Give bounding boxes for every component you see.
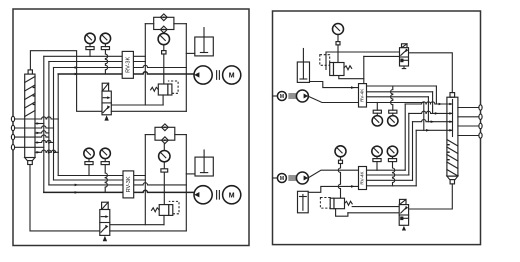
bus line R-b2 (367, 91, 433, 93)
RV4 block (359, 167, 367, 190)
wire cylinder tip to valve V2 (30, 165, 100, 231)
wire check box left (145, 23, 153, 25)
oil tank T4 (298, 191, 309, 213)
wire vertical x186 lower (185, 135, 187, 231)
bus line L4b (49, 183, 186, 185)
wire check box B2 left (145, 134, 155, 136)
riser to RV3 block (363, 56, 365, 83)
vertical riser A (bend line 1) (43, 56, 45, 192)
port oval R4 (479, 133, 482, 138)
svg-text:M: M (229, 73, 235, 80)
vertical riser B (bend line 2) (48, 62, 50, 185)
port oval 2 (11, 125, 14, 130)
cylinder cap R (450, 93, 455, 98)
oil tank T1 (195, 28, 214, 56)
svg-text:RV-4K: RV-4K (360, 88, 365, 102)
check valve diamond top B2 (162, 124, 169, 131)
wire tank T2 to drain (186, 173, 195, 175)
RV3 block (359, 84, 367, 107)
svg-text:M: M (280, 176, 284, 182)
solenoid valve V4 (399, 199, 408, 230)
cylinder stub 4 (35, 150, 58, 154)
relief valve R2 drain (163, 215, 165, 224)
motor M4 (273, 174, 287, 183)
wire tank T3 to RV3 block (310, 82, 359, 89)
pump P2 (194, 186, 212, 204)
wire vertical x145 (144, 24, 146, 105)
pressure gauge G8 (387, 146, 397, 186)
port oval 1 (11, 116, 14, 121)
bus line L2b (58, 175, 145, 177)
port line 4 (15, 146, 44, 148)
pilot loop wire to valve V3 (326, 52, 400, 70)
pressure gauge G4 (372, 103, 382, 127)
port line 4 into cylinder (416, 129, 453, 132)
cylinder stub 3 (35, 140, 54, 144)
downcomer 1 to lower bus (404, 104, 406, 170)
port oval R1 (479, 105, 482, 110)
port oval R2 (479, 114, 482, 119)
bus line R-b3b (367, 179, 413, 181)
relief valve R4 (320, 198, 352, 217)
wire relief R4 drain to valve V4 (348, 212, 399, 214)
relief valve R2 (152, 201, 180, 215)
bus line L3 (49, 61, 145, 63)
pressure gauge C1 (158, 33, 169, 45)
wire pump P4 to RV4 block (308, 170, 358, 178)
arrow on L5b (75, 191, 79, 194)
coupling M3-P3 (289, 94, 296, 98)
solenoid valve V2 (100, 202, 110, 241)
pressure gauge G6 (335, 146, 346, 160)
pressure gauge G7 (372, 146, 382, 170)
pump P1 (194, 66, 212, 84)
svg-text:M: M (280, 94, 284, 100)
check valve diamond top (160, 14, 167, 21)
bus line R-b2b (367, 174, 409, 176)
bus line R-b1b (367, 169, 406, 171)
port line 2 into cylinder (409, 111, 453, 115)
vertical riser D (bend line 4) (57, 74, 59, 176)
svg-text:RV-4K: RV-4K (360, 170, 365, 184)
check valve box B1 (154, 17, 174, 29)
pump P4 (296, 172, 308, 184)
port oval 3 (11, 134, 14, 139)
pressure gauge G3 (333, 24, 344, 42)
wire vertical x186 (drain to tank) (185, 24, 187, 112)
port line 3 into cylinder (413, 120, 454, 124)
cylinder bore line (452, 100, 454, 137)
bus line R-b3 (367, 96, 429, 98)
motor M2 (223, 186, 241, 204)
motor M3 (273, 92, 287, 101)
bus line L5 pump suction (58, 72, 194, 74)
coupling M4-P4 (289, 176, 296, 180)
left panel frame (13, 9, 249, 246)
downcomer 3 to lower bus (412, 122, 414, 181)
svg-text:RV-3K: RV-3K (126, 176, 132, 192)
cylinder body R (447, 97, 458, 176)
cylinder stub 1 (35, 122, 44, 125)
wire check box B2 right (175, 134, 187, 136)
right panel frame (273, 11, 481, 245)
oil tank T3 (297, 49, 309, 83)
wire RV block riser to valve V3 (364, 55, 400, 57)
orifice under G6 (338, 160, 342, 198)
port line 2 (15, 126, 53, 128)
arrow on L3b (75, 184, 79, 187)
check valve diamond bottom B2 (162, 137, 169, 144)
cylinder cap (28, 70, 32, 74)
pressure gauge A1 (85, 33, 95, 56)
port line 1 into cylinder (405, 102, 453, 106)
wire loop cylinder cap to valve V1 (30, 51, 102, 112)
oval line R2 (458, 116, 479, 118)
riser b3 down to port line 3 (427, 97, 429, 122)
solenoid valve V3 (400, 44, 409, 69)
svg-text:M: M (229, 192, 235, 199)
wire tank T4 to RV4 block (308, 185, 358, 192)
cylinder body (25, 74, 35, 157)
drain line valve V1 to relief (111, 104, 163, 106)
port line 1 (15, 117, 58, 119)
check valve box B2 (155, 127, 175, 140)
wire relief R4 spring side to valve V4 (352, 206, 399, 208)
relief valve R1 (151, 81, 179, 95)
downcomer 2 to lower bus (408, 113, 410, 175)
cylinder hatch (25, 77, 35, 117)
motor M1 (223, 66, 241, 84)
bus line R-b1 (367, 85, 437, 87)
wire cylinder tip R to valve V4 (409, 184, 453, 209)
bus line L2 (44, 55, 146, 57)
port line 3 (15, 135, 49, 137)
cylinder tip R (450, 180, 454, 184)
orifice under gauge C2 (161, 162, 168, 205)
cylinder tip (28, 161, 33, 165)
drain line valve V2 to relief R2 (110, 224, 164, 226)
orifice under gauge C1 (162, 45, 166, 84)
riser b2 down to port line 2 (432, 92, 434, 114)
relief valve R1 drain (162, 95, 164, 105)
arrow on L5 (75, 73, 79, 76)
port oval 4 (11, 145, 14, 150)
riser b4 down to port line 4 (423, 103, 425, 131)
oval line R4 (458, 135, 479, 137)
wire valve V3 to cylinder cap (409, 53, 453, 93)
bus line L4 (54, 65, 187, 67)
pressure gauge A2 (84, 148, 94, 175)
downcomer 4 to lower bus (415, 130, 417, 186)
pump P3 (296, 90, 308, 102)
wire pump P3 to RV3 block (308, 96, 358, 102)
pressure gauge B1 (100, 33, 110, 74)
pressure gauge G5 (388, 86, 398, 126)
RV-3K valve block lower (123, 171, 134, 198)
vertical riser C (bend line 3) (53, 68, 55, 181)
port oval R3 (479, 123, 482, 128)
cylinder taper R (447, 176, 458, 180)
wire check box right (174, 23, 186, 25)
bus line L5b pump suction (44, 190, 195, 192)
pressure gauge C2 (159, 144, 170, 162)
oil tank T2 (195, 150, 213, 176)
riser b1 down to port line 1 (435, 86, 437, 104)
bus line R-b4 (367, 102, 424, 104)
arrow on L3 (75, 66, 79, 69)
cylinder taper (25, 158, 35, 161)
cylinder stub 2 (35, 131, 49, 135)
cylinder hatch R (447, 140, 458, 177)
orifice under G3 (336, 42, 340, 63)
bus line L3b (54, 179, 146, 181)
wire vertical x145 lower (144, 135, 146, 225)
relief valve R3 (320, 55, 364, 79)
wire tank T1 to drain (186, 52, 195, 54)
wire valve V2 right to tank drain (110, 230, 187, 232)
oval line R1 (458, 107, 479, 109)
solenoid valve V1 (102, 83, 111, 120)
wire valve V1 right to tank drain (111, 110, 186, 112)
coupling P1-M1 (217, 71, 220, 80)
svg-text:RV-3K: RV-3K (126, 57, 132, 73)
pressure gauge B2 (100, 148, 110, 192)
bus line R-b4b (367, 185, 417, 187)
check valve diamond bottom (160, 26, 167, 33)
coupling P2-M2 (217, 191, 220, 200)
RV-3K valve block upper (122, 51, 133, 78)
oval line R3 (458, 125, 479, 127)
